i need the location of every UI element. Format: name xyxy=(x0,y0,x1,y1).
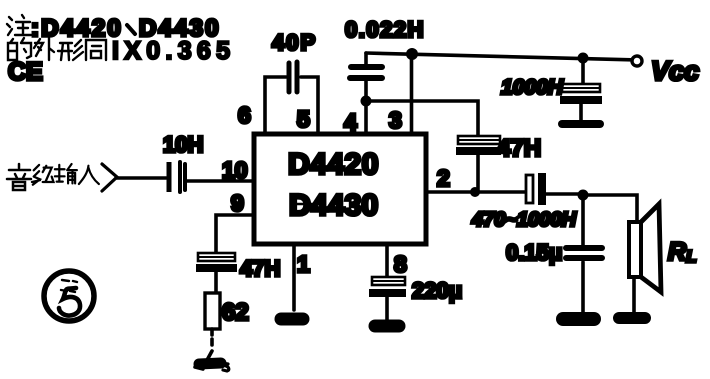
svg-text:CE: CE xyxy=(8,58,43,86)
note text line3: CE xyxy=(8,58,43,86)
svg-text:D4430: D4430 xyxy=(289,189,378,222)
ground pin1 xyxy=(281,313,303,326)
input label 音级输入 xyxy=(7,164,99,190)
pin 9 wire xyxy=(216,215,253,252)
capacitor 220H xyxy=(369,277,406,320)
wire node to speaker xyxy=(583,195,637,222)
svg-text:4: 4 xyxy=(344,109,357,135)
svg-text:3: 3 xyxy=(389,107,402,133)
capacitor 0.022 xyxy=(350,53,382,78)
capacitor 470~1000H output xyxy=(526,173,546,205)
node output junction xyxy=(578,190,589,201)
svg-text:0.022H: 0.022H xyxy=(345,17,425,42)
pin 8 wire xyxy=(385,244,389,277)
svg-text:8: 8 xyxy=(394,251,407,277)
svg-text:0.15μ: 0.15μ xyxy=(506,240,562,265)
svg-text:62: 62 xyxy=(222,299,249,326)
svg-text:Vcc: Vcc xyxy=(651,56,699,86)
ground 62 xyxy=(195,351,229,371)
note text line1: 注:D4420、D4430 xyxy=(7,15,221,42)
capacitor 10H input coupling xyxy=(167,162,186,192)
wire input to C-in xyxy=(116,176,166,180)
capacitor 1000H filter xyxy=(560,58,602,120)
resistor 62 xyxy=(205,293,220,345)
svg-text:2: 2 xyxy=(437,165,450,191)
ground speaker xyxy=(619,312,645,324)
svg-text:1: 1 xyxy=(297,251,310,277)
pin 3 wire to Vcc rail xyxy=(410,54,414,134)
capacitor 40P loop wire pin6 to pin5 xyxy=(265,77,318,134)
IC U1 D4420/D4430 xyxy=(254,134,426,244)
svg-text:1000H: 1000H xyxy=(501,76,564,99)
svg-text:6: 6 xyxy=(238,102,251,128)
pin 4 wire to C 0.022 xyxy=(364,80,368,134)
svg-text:470~1000H: 470~1000H xyxy=(471,209,577,231)
speaker RL xyxy=(629,204,661,312)
capacitor 40P xyxy=(289,62,297,92)
wire C-in to pin10 xyxy=(186,179,253,183)
capacitor 47H bootstrap xyxy=(456,136,501,192)
ground 0.15 xyxy=(563,312,594,326)
note text line2: 的外形同IX0.365 xyxy=(8,37,230,65)
svg-text:220μ: 220μ xyxy=(412,278,462,303)
pin 2 output wire xyxy=(426,190,526,194)
svg-text:10: 10 xyxy=(222,157,248,183)
svg-text::D4420: :D4420 xyxy=(31,15,123,42)
node pin4/bootstrap junction xyxy=(361,96,372,107)
svg-text:10H: 10H xyxy=(163,132,203,157)
bootstrap wire pin4 node to C47 right xyxy=(366,101,478,135)
capacitor 47H pin9 xyxy=(196,253,237,293)
svg-text:RL: RL xyxy=(668,238,696,266)
figure number circle 5 xyxy=(44,271,94,321)
svg-text:5: 5 xyxy=(297,106,310,132)
svg-text:47H: 47H xyxy=(497,135,541,162)
svg-text:40P: 40P xyxy=(272,30,317,55)
Vcc terminal xyxy=(632,56,642,66)
node Vcc-1000u junction xyxy=(578,53,589,64)
input arrow xyxy=(102,164,117,191)
node Vcc-pin3 junction xyxy=(406,48,418,60)
svg-text:47H: 47H xyxy=(240,256,280,281)
pin 1 wire xyxy=(292,244,296,310)
svg-text:9: 9 xyxy=(231,190,244,216)
node output-C47 junction xyxy=(470,187,480,197)
ground 220H xyxy=(375,320,399,333)
svg-text:D4420: D4420 xyxy=(288,148,379,181)
Vcc rail wire xyxy=(366,53,637,60)
ground 1000H xyxy=(562,120,600,128)
capacitor 0.15 xyxy=(566,195,602,312)
wire C-out to node xyxy=(546,192,580,196)
